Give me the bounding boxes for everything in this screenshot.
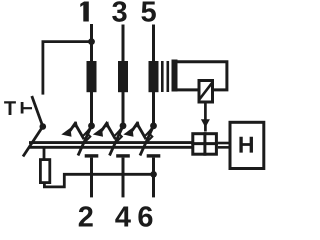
terminal label 3 [112, 1, 126, 22]
junction dot pole3 [150, 122, 157, 129]
test resistor [40, 160, 49, 183]
linkage to handle upper [218, 142, 230, 145]
mechanical linkage bar lower [29, 146, 192, 149]
fixed contact cap pole1 [85, 154, 99, 157]
terminal label 1 [80, 2, 89, 22]
terminal label 2 [79, 206, 93, 226]
CT core bar left [161, 61, 164, 92]
junction dot on pole1 [88, 38, 95, 45]
release arrow pole3 [123, 121, 152, 140]
wire pole2 top (terminal 3 to winding) [122, 25, 125, 63]
fixed contact cap pole2 [116, 154, 130, 157]
mechanical linkage bar upper [29, 141, 192, 144]
test switch pivot dot [40, 123, 47, 130]
release arrow pole1 [61, 121, 90, 140]
test branch wire vertical [42, 42, 45, 95]
terminal label 5 [141, 2, 155, 22]
wire pole3 middle [152, 92, 155, 125]
CT core bar right [167, 61, 170, 92]
terminal label 4 [115, 207, 131, 227]
test switch lower blade [23, 127, 43, 157]
wire resistor to return [44, 174, 153, 187]
actuation arrow relay to mechanism [201, 104, 210, 132]
fixed contact cap pole3 [147, 154, 161, 157]
test switch blade [32, 96, 43, 127]
wire pole1 middle (winding to contact) [90, 92, 93, 125]
wire pole1 top (terminal 1 to winding) [90, 24, 93, 62]
junction dot on pole3 bottom [150, 171, 157, 178]
contact blade pole2 [110, 126, 124, 156]
mechanism box [191, 132, 218, 156]
wire pole1 bottom (to terminal 2) [90, 158, 93, 198]
wire pole3 top (terminal 5 to winding) [152, 25, 155, 63]
trip relay [199, 81, 213, 103]
secondary winding loop [172, 60, 227, 92]
primary winding pole1 [87, 61, 97, 92]
release arrow pole2 [93, 121, 122, 140]
wire pole3 bottom (to terminal 6) [152, 158, 155, 198]
linkage to handle lower [218, 146, 230, 149]
contact blade pole3 [140, 126, 154, 156]
terminal label 6 [138, 206, 152, 227]
junction dot pole1 [88, 122, 95, 129]
wire pole2 bottom (to terminal 4) [122, 158, 125, 198]
primary winding pole2 [118, 61, 128, 92]
handle box H [230, 122, 264, 168]
contact blade pole1 [78, 126, 92, 156]
wire pole2 middle [122, 92, 125, 125]
test branch wire horizontal [42, 40, 92, 43]
junction dot pole2 [120, 122, 127, 129]
wire bar to resistor [43, 146, 46, 160]
test button actuator [22, 102, 32, 114]
test label T [4, 101, 16, 115]
primary winding pole3 [149, 61, 159, 92]
